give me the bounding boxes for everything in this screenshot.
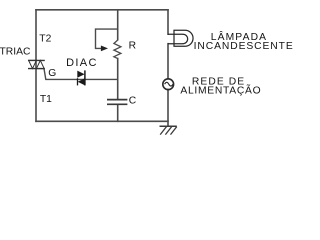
svg-text:G: G xyxy=(48,68,56,79)
svg-text:DIAC: DIAC xyxy=(66,57,98,69)
svg-text:R: R xyxy=(129,41,136,52)
svg-text:INCANDESCENTE: INCANDESCENTE xyxy=(194,41,294,52)
svg-text:ALIMENTAÇÃO: ALIMENTAÇÃO xyxy=(180,83,261,96)
svg-text:C: C xyxy=(129,96,137,107)
svg-text:T1: T1 xyxy=(40,94,52,105)
svg-text:TRIAC: TRIAC xyxy=(0,47,31,58)
svg-text:T2: T2 xyxy=(39,33,51,44)
